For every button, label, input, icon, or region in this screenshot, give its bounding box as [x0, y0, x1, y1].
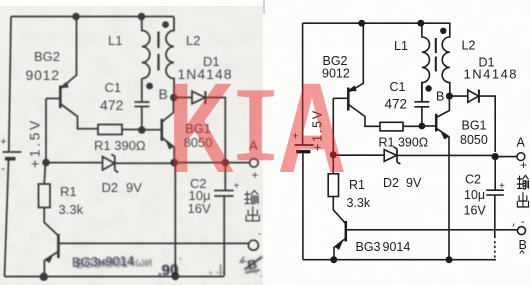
svg-text:R1: R1 — [60, 184, 77, 199]
node B dot — [170, 94, 178, 102]
node dot C1/R1/BG1-base junction — [138, 126, 146, 134]
svg-text:3.3k: 3.3k — [347, 196, 371, 210]
node dot top rail L1 — [417, 20, 424, 27]
smudge 90 handwriting — [157, 257, 262, 280]
node dot (emitter/D2 junction, red-tinted by watermark) — [170, 159, 178, 167]
transistor BG2 — [350, 23, 364, 91]
svg-text:+: + — [252, 168, 259, 182]
transistor BG1 — [161, 119, 164, 141]
capacitor C2 — [486, 157, 504, 238]
svg-text:A: A — [517, 136, 526, 150]
svg-text:16V: 16V — [188, 201, 211, 216]
svg-text:L2: L2 — [462, 39, 476, 53]
wire bottom rail — [303, 259, 496, 261]
svg-text:L1: L1 — [108, 33, 122, 48]
inductor L2 — [442, 23, 450, 96]
label output chu — [517, 193, 528, 207]
transformer core — [435, 38, 437, 72]
polarity dot L1 — [425, 85, 431, 91]
svg-text:BG2: BG2 — [34, 49, 60, 64]
resistor R1 390 — [380, 122, 403, 131]
transformer core — [157, 32, 159, 71]
label output chu — [246, 207, 259, 221]
emitter drop of BG1 to ground — [174, 163, 176, 277]
svg-text:+: + — [520, 158, 527, 172]
node dot D2 left junction — [330, 151, 337, 158]
watermark letter I — [237, 90, 274, 160]
inductor L1 — [142, 17, 150, 79]
wire bottom rail — [5, 276, 224, 278]
wire BG2 base drop — [332, 98, 334, 155]
svg-text:BG1: BG1 — [462, 119, 487, 133]
svg-text:+: + — [499, 181, 505, 192]
svg-text:R1: R1 — [349, 178, 365, 192]
svg-text:+1.5V: +1.5V — [27, 118, 43, 168]
resistor R1 3.3k — [44, 163, 45, 184]
transistor BG3 — [345, 221, 348, 242]
svg-text:C2: C2 — [465, 173, 481, 187]
zener D2 — [46, 162, 103, 164]
svg-text:9014: 9014 — [383, 240, 411, 254]
zener D2 — [333, 154, 384, 156]
wire base drop — [45, 99, 47, 163]
terminal B circle — [248, 240, 258, 250]
svg-text:, .|.: , .|. — [209, 262, 225, 276]
svg-text:D2: D2 — [383, 176, 399, 190]
ground node dot — [171, 272, 179, 280]
diode D1 — [449, 95, 467, 97]
svg-text:B: B — [519, 238, 527, 252]
svg-text:1N4148: 1N4148 — [464, 67, 519, 82]
divider top mark — [263, 0, 265, 14]
svg-text:BG3н9014ωи: BG3н9014ωи — [75, 255, 152, 271]
svg-text:-: - — [1, 161, 5, 175]
label output shu — [244, 191, 258, 204]
polarity dot L1 — [146, 83, 153, 90]
wire BG3 base to B terminal — [346, 229, 517, 231]
svg-text:-: - — [521, 216, 525, 228]
node dot C1 bottom — [419, 123, 426, 130]
node dot D2/R1-3.3k junction — [42, 159, 50, 167]
terminal A circle — [250, 159, 259, 168]
inductor L1 — [422, 23, 430, 102]
svg-text:9V: 9V — [126, 180, 142, 195]
polarity dot L2 — [440, 28, 446, 34]
terminal B circle — [518, 227, 526, 235]
capacitor C2 — [214, 163, 233, 277]
svg-text:.90: .90 — [157, 262, 179, 280]
capacitor C1 — [135, 79, 150, 127]
inductor L2 — [166, 17, 174, 98]
svg-text:R1 390Ω: R1 390Ω — [379, 136, 429, 150]
svg-text:L2: L2 — [186, 33, 200, 48]
wire to A terminal — [225, 162, 249, 164]
wire left rail upper — [9, 17, 11, 153]
svg-text:R1 390Ω: R1 390Ω — [94, 138, 146, 153]
capacitor C1 — [414, 82, 429, 123]
wire to BG1 base — [422, 125, 436, 127]
watermark KIA — [168, 56, 346, 199]
node dot top rail BG2 — [72, 13, 79, 20]
svg-text:10μ: 10μ — [464, 188, 485, 202]
svg-text:9012: 9012 — [26, 67, 60, 83]
resistor R1 390 — [98, 125, 122, 135]
terminal A circle — [517, 153, 525, 161]
svg-text:472: 472 — [100, 97, 124, 113]
node dot top rail BG2 — [358, 20, 365, 27]
node dot top rail L1 — [138, 13, 145, 20]
diode D1 — [174, 97, 192, 99]
svg-text:B: B — [159, 86, 168, 102]
node B dot — [446, 93, 453, 100]
svg-text:K: K — [168, 56, 235, 199]
label BG3 9014 smudged — [72, 253, 152, 272]
transistor BG1 — [435, 114, 438, 132]
svg-text:16V: 16V — [464, 204, 487, 218]
wire top rail — [11, 16, 174, 18]
polarity dot L2 — [162, 21, 169, 28]
svg-text:C1: C1 — [105, 80, 122, 95]
node dot A junction — [492, 153, 499, 160]
svg-text:9V: 9V — [406, 176, 422, 190]
node dot BG1 emitter ground — [446, 256, 453, 263]
svg-text:C1: C1 — [390, 80, 406, 94]
resistor R1 3.3k — [332, 155, 334, 174]
svg-text:D2: D2 — [102, 180, 119, 195]
left scan light background — [0, 6, 263, 285]
wire left rail lower — [5, 159, 9, 277]
smudge B strikethrough under B terminal — [242, 255, 265, 274]
wire left rail lower — [302, 152, 304, 260]
wire left rail upper — [302, 23, 304, 145]
node dot C2 top (red-tinted) — [222, 159, 229, 166]
right circuit labels — [292, 39, 528, 255]
svg-text:ˇ: ˇ — [179, 257, 182, 267]
wire top rail — [303, 22, 451, 24]
svg-text:L1: L1 — [394, 39, 408, 53]
svg-text:3.3k: 3.3k — [59, 202, 84, 217]
svg-text:BG3: BG3 — [356, 240, 381, 254]
wire junction to C2/A — [174, 162, 225, 164]
svg-text:472: 472 — [385, 97, 408, 112]
battery B+ — [3, 151, 22, 153]
svg-text:8050: 8050 — [460, 133, 488, 147]
left circuit labels — [0, 33, 265, 280]
battery B+ — [295, 144, 314, 146]
wire BG3 base to B terminal — [59, 242, 249, 244]
transistor BG3 — [57, 234, 60, 258]
svg-text:+: + — [0, 136, 6, 148]
transistor BG2 — [62, 17, 77, 89]
svg-text:B: B — [436, 90, 444, 104]
svg-text:A: A — [278, 56, 347, 199]
label output shu — [517, 175, 528, 188]
svg-text:-: - — [258, 229, 261, 240]
wire to BG1 base — [142, 129, 162, 131]
wire to A terminal — [495, 156, 517, 158]
